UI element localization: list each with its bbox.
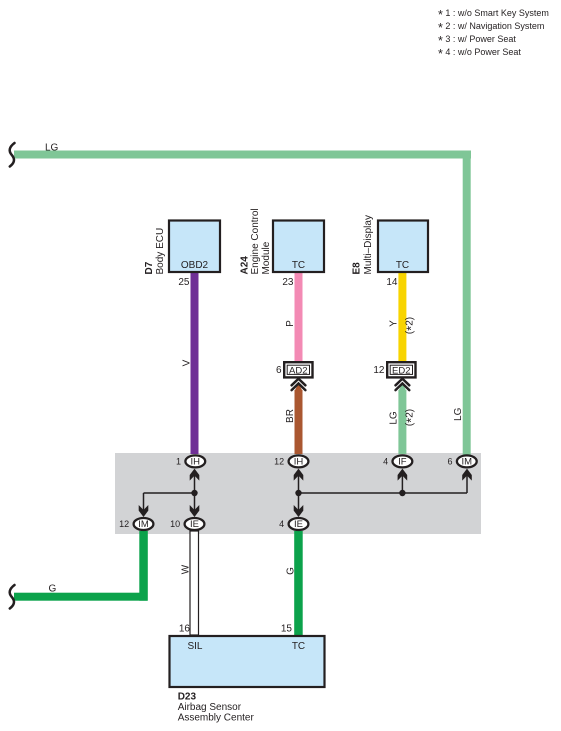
svg-text:D7: D7	[144, 261, 155, 274]
svg-text:* 1 : w/o Smart Key System: * 1 : w/o Smart Key System	[438, 8, 549, 22]
svg-text:* 2 : w/ Navigation System: * 2 : w/ Navigation System	[438, 21, 544, 35]
svg-text:15: 15	[281, 624, 293, 635]
svg-text:G: G	[49, 584, 57, 595]
svg-text:IE: IE	[190, 519, 199, 530]
svg-text:Multi–Display: Multi–Display	[363, 215, 374, 274]
svg-text:IF: IF	[398, 457, 407, 468]
svg-text:Airbag Sensor: Airbag Sensor	[178, 702, 242, 713]
svg-text:LG: LG	[389, 411, 400, 425]
svg-text:25: 25	[178, 277, 190, 288]
svg-text:D23: D23	[178, 692, 197, 703]
svg-text:12: 12	[119, 519, 129, 529]
svg-text:IM: IM	[462, 457, 473, 468]
svg-text:* 3 : w/ Power Seat: * 3 : w/ Power Seat	[438, 34, 516, 48]
svg-text:ED2: ED2	[392, 365, 410, 376]
svg-text:4: 4	[279, 519, 284, 529]
svg-text:TC: TC	[292, 641, 305, 652]
svg-text:E8: E8	[352, 262, 363, 275]
svg-text:14: 14	[386, 277, 398, 288]
svg-text:IH: IH	[191, 457, 201, 468]
svg-text:IE: IE	[294, 519, 303, 530]
svg-text:LG: LG	[453, 407, 464, 421]
svg-text:12: 12	[274, 457, 284, 467]
svg-text:LG: LG	[45, 143, 59, 154]
svg-text:OBD2: OBD2	[181, 260, 209, 271]
svg-text:BR: BR	[285, 409, 296, 423]
svg-text:TC: TC	[292, 260, 305, 271]
svg-text:4: 4	[383, 457, 388, 467]
svg-text:AD2: AD2	[289, 365, 307, 376]
svg-text:(*2): (*2)	[404, 317, 419, 334]
svg-text:Assembly Center: Assembly Center	[178, 713, 255, 724]
svg-text:V: V	[182, 359, 193, 366]
svg-text:* 4 : w/o Power Seat: * 4 : w/o Power Seat	[438, 47, 521, 61]
svg-text:Body ECU: Body ECU	[155, 228, 166, 275]
svg-text:W: W	[180, 564, 191, 574]
svg-text:SIL: SIL	[187, 641, 202, 652]
svg-text:TC: TC	[396, 260, 409, 271]
svg-text:IH: IH	[294, 457, 304, 468]
svg-text:6: 6	[276, 365, 282, 376]
svg-text:P: P	[285, 320, 296, 327]
svg-text:6: 6	[447, 457, 452, 467]
svg-text:23: 23	[282, 277, 294, 288]
svg-text:A24: A24	[240, 256, 251, 275]
svg-text:(*2): (*2)	[404, 409, 419, 426]
svg-text:Module: Module	[261, 241, 272, 274]
svg-text:Y: Y	[389, 320, 400, 327]
svg-text:10: 10	[170, 519, 180, 529]
svg-text:IM: IM	[138, 519, 149, 530]
svg-text:Engine Control: Engine Control	[250, 208, 261, 274]
svg-text:12: 12	[373, 365, 385, 376]
svg-text:1: 1	[176, 457, 181, 467]
svg-text:16: 16	[179, 624, 191, 635]
svg-text:G: G	[285, 567, 296, 575]
